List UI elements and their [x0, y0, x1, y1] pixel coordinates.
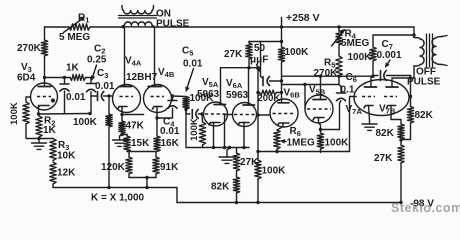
resistor 82K bottom [233, 171, 239, 203]
transformer T1 core [119, 16, 157, 19]
V6A grid dashes [234, 114, 255, 116]
label 6D4 [17, 73, 36, 84]
wire R5 to grid node [338, 76, 340, 84]
resistor R5 270K [336, 56, 342, 76]
label V4A [125, 56, 142, 68]
label 100K interstage [190, 93, 215, 104]
V4A cathode lead [121, 107, 123, 121]
svg-text:100K: 100K [325, 138, 350, 149]
node 100K V4A grid on bus [107, 186, 110, 189]
label PULSE of T1 [156, 19, 190, 30]
wire tap to ground bus [146, 178, 148, 188]
V7A cathode bar [364, 106, 373, 109]
resistor 82K cathode [398, 124, 404, 140]
node V3 cathode [37, 112, 40, 115]
node V5A cathode on bus [212, 146, 215, 149]
svg-text:0.01: 0.01 [95, 81, 115, 92]
label uuF [250, 55, 268, 66]
wire T2 primary bottom [413, 66, 415, 78]
transformer T1 secondary winding [122, 6, 154, 14]
node V6A grid on bus [223, 146, 226, 149]
capacitor C6 0.1 [337, 85, 346, 104]
V3 cathode bar [38, 106, 49, 109]
V6A grid wire left [225, 115, 233, 148]
tube V4A envelope [113, 85, 141, 113]
label PULSE of T2 [407, 77, 441, 88]
svg-text:0.25: 0.25 [87, 55, 107, 66]
node R4 top on rail [337, 25, 340, 28]
label 5963 left [197, 89, 220, 100]
svg-text:82K: 82K [415, 110, 434, 121]
callout arrow 50uuF [257, 65, 261, 72]
svg-text:K = X 1,000: K = X 1,000 [91, 193, 145, 204]
label R4 [345, 29, 357, 41]
resistor 100K to bus [255, 152, 261, 203]
label 1K value of R2 [43, 125, 57, 136]
watermark [391, 201, 460, 215]
label 12BH7 [126, 72, 158, 83]
label 0.01 of C5 [183, 59, 203, 70]
wire V3 plate to 1K resistor [45, 77, 71, 79]
label -98 V [410, 199, 434, 210]
wire V6B plate to V5B grid [282, 85, 340, 109]
V6A cathode bar [238, 123, 249, 126]
V7B plate bar [386, 86, 398, 88]
capacitor C5 series [186, 110, 202, 119]
svg-text:27K: 27K [374, 153, 393, 164]
resistor 91K [153, 152, 159, 175]
resistor 100K V4A grid [106, 96, 112, 188]
label C6 [346, 72, 357, 84]
label V4B [158, 67, 175, 79]
wire 12K bottom to ground bus [52, 184, 54, 188]
capacitor 0.01 plate bypass [60, 78, 69, 114]
tube V4B envelope [144, 85, 172, 113]
label R5 [324, 58, 335, 70]
label 100K vertical grid leak [189, 118, 200, 141]
svg-text:47K: 47K [126, 121, 145, 132]
wire cross coupling column [257, 68, 259, 152]
tube V6A envelope [233, 103, 257, 127]
svg-text:100K: 100K [9, 102, 20, 125]
label +258 V [286, 12, 320, 24]
resistor 100K V5B cathode [317, 130, 323, 153]
svg-text:μμF: μμF [250, 55, 268, 66]
label 91K [160, 162, 179, 173]
label 50 [254, 43, 266, 54]
wire plate drop [410, 78, 412, 107]
label 0.01 of C4 [160, 126, 180, 137]
V7B plate lead [392, 78, 414, 87]
node V7B plate drop [409, 76, 412, 79]
V6B plate bar [278, 102, 289, 104]
capacitor C4 0.01 [168, 96, 177, 118]
node lower wire left [256, 150, 259, 153]
wire top rail left segment [45, 26, 70, 28]
wire plate branch top right [373, 35, 414, 47]
node V4B cathode bypass tap [155, 116, 158, 119]
label V7B [379, 104, 396, 116]
resistor 15K [124, 136, 130, 152]
resistor 100K V7 plate [370, 47, 376, 61]
V5A plate bar [214, 104, 226, 106]
wire ground bus left [53, 187, 177, 189]
node +258V on rail [280, 25, 283, 28]
resistor 47K [119, 120, 125, 134]
V7A plate bar [365, 86, 377, 88]
V7A plate lead [370, 76, 372, 87]
svg-text:27K: 27K [224, 49, 243, 60]
resistor R6 1MEG [274, 130, 280, 152]
resistor 16K [154, 136, 160, 152]
resistor 120K [126, 157, 132, 174]
label 82K cathode [376, 128, 395, 139]
svg-text:100K: 100K [73, 117, 98, 128]
svg-text:0.01: 0.01 [183, 59, 203, 70]
wire plate supply branch [249, 41, 282, 43]
node V5B cathode [319, 128, 322, 131]
node V5A grid [200, 112, 203, 115]
svg-text:PULSE: PULSE [407, 77, 441, 88]
label 16K [161, 138, 180, 149]
svg-text:PULSE: PULSE [156, 19, 190, 30]
node V5B grid corner [303, 83, 306, 86]
tube V6B envelope [270, 99, 298, 127]
label V7A [346, 104, 363, 116]
V3 grid dashes [37, 96, 51, 98]
wire R4 to R5 [338, 45, 340, 56]
V4A plate bar [119, 86, 132, 88]
wire V4A cathode to V4B grid [122, 114, 144, 116]
V4B plate bar [148, 86, 162, 88]
svg-text:270K: 270K [314, 68, 339, 79]
svg-text:10K: 10K [57, 151, 76, 162]
resistor 27K plate [246, 42, 252, 68]
resistor 1K plate [70, 75, 91, 81]
node V4B plate-side tap [171, 94, 174, 97]
wire 100K bottom down to bus [185, 110, 187, 148]
resistor 100K V3 grid [23, 102, 29, 124]
wire C6 to V5B cathode [321, 103, 340, 130]
label V5B [309, 85, 326, 97]
resistor R3 10K [50, 139, 56, 161]
wire C4 to V4B cathode [157, 117, 173, 119]
svg-text:5963: 5963 [226, 90, 249, 101]
svg-text:12BH7: 12BH7 [126, 72, 158, 83]
label 0.01 below V3 [66, 92, 86, 103]
capacitor 50uuF [261, 42, 282, 86]
V5A plate lead [220, 68, 222, 105]
wire T1 to V4A plate [124, 27, 126, 87]
tube V7 envelope [354, 80, 409, 116]
label 100K V5B cathode [325, 138, 350, 149]
ground center [219, 148, 235, 164]
node V6B grid tie [256, 113, 259, 116]
wire rail under T1 to +258V and R4 [123, 26, 414, 28]
callout line C3 [91, 65, 96, 80]
node V7A plate / C7 [371, 75, 374, 78]
T2 secondary top stub [443, 36, 448, 37]
label C4 [163, 117, 175, 129]
label 82K plate [415, 110, 434, 121]
V6B cathode lead [277, 123, 283, 130]
wire 120K/91K bottoms [129, 174, 156, 178]
svg-text:50: 50 [254, 43, 266, 54]
V4B cathode bar [153, 107, 163, 110]
svg-text:120K: 120K [101, 162, 126, 173]
wire bottom bus right [177, 202, 401, 204]
node V4A grid [107, 94, 110, 97]
svg-text:100K: 100K [348, 52, 373, 63]
svg-text:1MEG: 1MEG [287, 138, 316, 149]
V4B cathode lead [156, 107, 158, 137]
V7B cathode bar [387, 106, 396, 109]
V7A cathode lead [369, 106, 370, 121]
node V3 plate junction [43, 76, 46, 79]
node R6 bottom [275, 150, 278, 153]
ground below 47K [113, 135, 127, 147]
svg-text:5 MEG: 5 MEG [59, 32, 90, 43]
svg-text:12K: 12K [57, 168, 76, 179]
svg-text:270K: 270K [17, 43, 42, 54]
wire V6B grid [258, 114, 270, 116]
transformer T1 primary winding [123, 22, 154, 27]
capacitor C7 series [373, 71, 411, 81]
node plate-wire junction [63, 76, 66, 79]
T2 secondary bottom stub [443, 65, 448, 66]
label R1 [78, 13, 89, 25]
wire cathode bus to caps [39, 113, 91, 116]
label V5A [202, 77, 219, 89]
label C3 [97, 68, 108, 80]
V3 gas dot [51, 98, 55, 102]
label 0.1 of C6 [341, 85, 355, 96]
V6B cathode bar [278, 123, 290, 126]
wire V5A plate to 27K bottom [221, 67, 259, 69]
label C5 [182, 46, 193, 58]
wire R2 bottom to R3 [39, 138, 53, 140]
V6B grid dashes [273, 113, 296, 115]
callout line C7 [385, 60, 390, 67]
label 27K top [224, 49, 243, 60]
V7B grid dashes [384, 96, 397, 98]
V3 plate bar [38, 86, 51, 88]
wire lower coupling to V7 grid [258, 151, 350, 153]
label V6B [284, 88, 301, 100]
node T1 left terminal on rail [121, 25, 124, 28]
node divider on bus [145, 186, 148, 189]
wire 100K to V6B plate [281, 62, 283, 103]
label 270K [17, 43, 42, 54]
svg-text:0.01: 0.01 [66, 92, 86, 103]
resistor 27K right [398, 140, 404, 163]
label 27K bottom [240, 157, 259, 168]
node V5B plate coupling [319, 75, 322, 78]
node T2 tie [412, 33, 415, 36]
label 120K [101, 162, 126, 173]
resistor 82K plate load [407, 107, 413, 124]
node R5 bottom on coupling wire [337, 75, 340, 78]
node divider tap [145, 176, 148, 179]
label 1MEG [281, 138, 316, 149]
resistor R2 1K [36, 116, 42, 137]
wire plate coupling right [282, 75, 374, 77]
svg-text:+258 V: +258 V [286, 12, 320, 24]
node V6A cathode on bus [242, 146, 245, 149]
wire T1 right to V4B plate [154, 27, 156, 87]
label 10K [57, 151, 76, 162]
svg-text:100K: 100K [189, 118, 200, 141]
label 100K V6B plate [285, 47, 310, 58]
resistor 100K interstage [183, 97, 189, 110]
label 27K right [374, 153, 393, 164]
wire bus step [176, 188, 178, 203]
node -98V [399, 201, 402, 204]
label 270K of R5 [314, 68, 339, 79]
V3 cathode lead [38, 106, 40, 115]
V7B cathode lead [391, 106, 401, 125]
node 47K bottom [120, 133, 123, 136]
label C7 [382, 39, 393, 51]
label R6 [290, 126, 301, 138]
V5B plate lead [320, 76, 322, 99]
V5B cathode bar [313, 118, 324, 121]
wire 47K bottom to 15K [122, 135, 127, 137]
label 5 MEG [59, 32, 90, 43]
svg-text:15K: 15K [131, 138, 150, 149]
node 50uuF right [280, 79, 283, 82]
V5A grid dashes [205, 113, 226, 115]
label R2 [44, 116, 55, 128]
V5A cathode lead [213, 123, 215, 148]
wire 270K to V3 plate node [44, 56, 46, 78]
V3 grid wire to 100K [26, 97, 31, 102]
svg-text:0.1: 0.1 [341, 85, 355, 96]
svg-text:82K: 82K [376, 128, 395, 139]
label 0.001 of C7 [377, 50, 402, 61]
callout line C5 [186, 69, 194, 92]
resistor 270K [41, 40, 47, 56]
node plate wire right end [256, 66, 259, 69]
wire +258V stub [281, 18, 283, 28]
arrow R4 variable [332, 29, 346, 46]
label 5MEG of R4 [341, 38, 370, 49]
label R3 [58, 140, 69, 152]
svg-text:16K: 16K [161, 138, 180, 149]
label 100K vertical [9, 102, 20, 125]
svg-text:91K: 91K [160, 162, 179, 173]
node 82K bottom on bus [235, 201, 238, 204]
node 100K bottom on bus [256, 201, 259, 204]
label 0.25 [87, 55, 107, 66]
node R2 bottom [37, 137, 40, 140]
wire rail to 100K plate res [281, 27, 283, 47]
V4B grid dashes [151, 96, 165, 98]
node V4A cathode [120, 113, 123, 116]
tube V3 envelope [31, 83, 58, 110]
V5B grid dashes [307, 108, 331, 110]
capacitor C3 series [91, 92, 109, 101]
node caps to cathode-wire [88, 112, 91, 115]
node 200K right end [280, 91, 283, 94]
V7A grid dashes [362, 96, 375, 98]
node branch to 27K [280, 40, 283, 43]
resistor R1 5 MEG variable [69, 24, 123, 30]
V5B plate bar [313, 99, 326, 101]
transformer T2 core [427, 34, 433, 67]
node ground stem on bus [228, 146, 231, 149]
svg-text:27K: 27K [240, 157, 259, 168]
wire rail corner to T2 [413, 27, 415, 38]
label C2 [94, 44, 105, 56]
V4A cathode bar [118, 107, 128, 110]
svg-text:100K: 100K [262, 166, 287, 177]
arrow of variable resistor R1 [64, 17, 85, 33]
capacitor C2 0.25 [87, 78, 96, 114]
svg-text:100K: 100K [285, 47, 310, 58]
label 12K [57, 168, 76, 179]
label 100K under caps [73, 117, 98, 128]
label 47K [126, 121, 145, 132]
label 0.01 of C3 [95, 81, 115, 92]
ground below R2 [32, 139, 47, 150]
V3 plate lead [44, 78, 46, 87]
V5A cathode bar [209, 123, 220, 126]
label 82K bottom [211, 182, 230, 193]
wire cathode bus [186, 147, 249, 149]
svg-text:0.001: 0.001 [377, 50, 402, 61]
V6A cathode lead [243, 123, 245, 148]
label V6A [226, 78, 243, 90]
wire 100K to coupling node [372, 61, 374, 76]
node 200K left end [256, 91, 259, 94]
svg-text:Steklo.com: Steklo.com [391, 201, 460, 215]
wire 100K bottom to R2 node [26, 124, 39, 139]
label V3 [21, 62, 32, 74]
V6A plate lead [248, 68, 250, 105]
resistor R4 5MEG variable [336, 27, 342, 45]
svg-text:5963: 5963 [197, 89, 220, 100]
node on tube edge [409, 95, 412, 98]
label 15K [131, 138, 150, 149]
svg-text:1K: 1K [66, 63, 80, 74]
svg-text:82K: 82K [211, 182, 230, 193]
wire grid stub into V4A [109, 95, 113, 97]
svg-text:0.01: 0.01 [160, 126, 180, 137]
label ON [156, 9, 171, 20]
label K = X 1,000 [91, 193, 145, 204]
label OFF [416, 67, 436, 78]
resistor 27K bottom [233, 148, 239, 172]
transformer T2 primary winding [414, 38, 424, 67]
wire 27K to -98V node [400, 163, 402, 203]
tube V5B envelope [305, 95, 333, 123]
svg-text:6D4: 6D4 [17, 73, 36, 84]
label 1K plate resistor [66, 63, 80, 74]
wire 15K/16K bottoms [127, 151, 157, 153]
label 100K V7 plate [348, 52, 373, 63]
label 5963 right [226, 90, 249, 101]
wire from rail corner down to 270K [44, 27, 46, 40]
resistor 12K [50, 162, 56, 184]
wire V7A grid riser [350, 97, 357, 152]
label 200K [258, 93, 281, 104]
resistor 100K V6B plate [278, 47, 284, 62]
node 27K bottom [247, 66, 250, 69]
svg-text:1K: 1K [43, 125, 57, 136]
resistor 200K [260, 90, 282, 95]
wire down to 120K [128, 152, 130, 158]
